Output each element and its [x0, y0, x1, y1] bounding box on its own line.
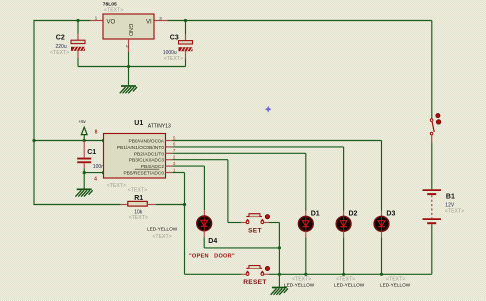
svg-text:3: 3 [159, 16, 162, 22]
svg-text:PB3/CLKI/ADC3: PB3/CLKI/ADC3 [129, 158, 165, 164]
svg-text:<TEXT>: <TEXT> [164, 56, 183, 62]
svg-text:LED-YELLOW: LED-YELLOW [147, 226, 178, 231]
svg-text:<TEXT>: <TEXT> [445, 209, 464, 215]
svg-text:VO: VO [107, 20, 116, 26]
svg-text:<TEXT>: <TEXT> [386, 276, 405, 282]
svg-text:ATTINY13: ATTINY13 [148, 124, 171, 130]
svg-text:8: 8 [95, 129, 98, 135]
svg-text:SET: SET [248, 227, 262, 234]
svg-text:2: 2 [124, 45, 130, 48]
svg-text:3: 3 [173, 161, 176, 166]
svg-text:D1: D1 [311, 211, 320, 218]
svg-text:U1: U1 [134, 120, 143, 127]
svg-text:D3: D3 [386, 211, 395, 218]
svg-text:1: 1 [95, 16, 98, 22]
svg-text:2: 2 [173, 155, 176, 160]
svg-text:GND: GND [127, 24, 133, 36]
svg-text:78L05: 78L05 [103, 1, 117, 7]
svg-text:"OPEN DOOR": "OPEN DOOR" [189, 253, 235, 259]
svg-text:<TEXT>: <TEXT> [50, 50, 69, 56]
svg-text:1: 1 [173, 167, 176, 172]
svg-text:7: 7 [173, 148, 176, 153]
svg-text:LED-YELLOW: LED-YELLOW [380, 282, 411, 287]
svg-text:4: 4 [94, 176, 97, 182]
svg-text:<TEXT>: <TEXT> [129, 215, 148, 221]
svg-text:C2: C2 [56, 34, 65, 41]
svg-text:VI: VI [146, 20, 152, 26]
svg-text:100n: 100n [93, 164, 104, 170]
svg-text:<TEXT>: <TEXT> [107, 183, 126, 189]
svg-text:<TEXT>: <TEXT> [104, 8, 123, 14]
svg-text:PB2/ADC1/T0: PB2/ADC1/T0 [134, 151, 164, 157]
svg-text:<TEXT>: <TEXT> [152, 234, 171, 240]
svg-text:5: 5 [173, 135, 176, 140]
svg-text:B1: B1 [446, 193, 455, 200]
svg-text:6: 6 [173, 142, 176, 147]
svg-text:D4: D4 [208, 238, 217, 245]
svg-text:RESET: RESET [243, 279, 266, 286]
svg-text:C3: C3 [170, 35, 179, 42]
svg-text:<TEXT>: <TEXT> [292, 276, 311, 282]
svg-text:+5v: +5v [79, 119, 87, 124]
svg-text:PB0/AIN0/OC0A: PB0/AIN0/OC0A [129, 139, 165, 145]
svg-text:<TEXT>: <TEXT> [128, 188, 147, 194]
svg-text:<TEXT>: <TEXT> [336, 276, 355, 282]
svg-text:R1: R1 [134, 195, 143, 202]
svg-text:D2: D2 [349, 211, 358, 218]
svg-text:PB1/AIN1/OC0B/INT0: PB1/AIN1/OC0B/INT0 [117, 145, 165, 151]
svg-text:C1: C1 [87, 149, 96, 156]
svg-text:PB5/RESET/ADC0: PB5/RESET/ADC0 [123, 171, 164, 177]
svg-text:LED-YELLOW: LED-YELLOW [284, 282, 315, 287]
svg-text:LED-YELLOW: LED-YELLOW [334, 282, 365, 287]
